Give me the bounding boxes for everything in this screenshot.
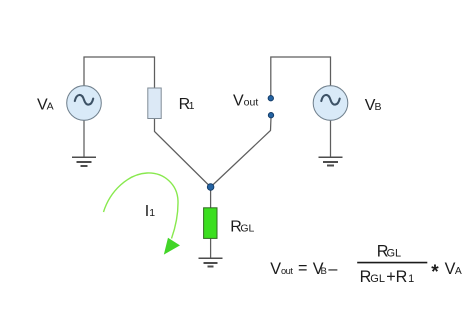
svg-text:VA: VA bbox=[445, 260, 462, 278]
svg-text:VB: VB bbox=[365, 97, 382, 114]
svg-text:R1: R1 bbox=[179, 96, 195, 113]
svg-text:*: * bbox=[431, 262, 439, 283]
svg-text:I1: I1 bbox=[145, 203, 155, 220]
svg-text:RGL: RGL bbox=[377, 242, 401, 260]
svg-text:RGL: RGL bbox=[230, 218, 254, 235]
svg-text:VA: VA bbox=[37, 96, 54, 113]
svg-text:VB: VB bbox=[313, 260, 327, 278]
svg-text:=: = bbox=[298, 260, 307, 278]
svg-text:–: – bbox=[328, 260, 337, 278]
svg-text:Vout: Vout bbox=[233, 93, 258, 110]
svg-text:RGL+R1: RGL+R1 bbox=[360, 268, 415, 286]
svg-text:Vout: Vout bbox=[270, 260, 293, 278]
